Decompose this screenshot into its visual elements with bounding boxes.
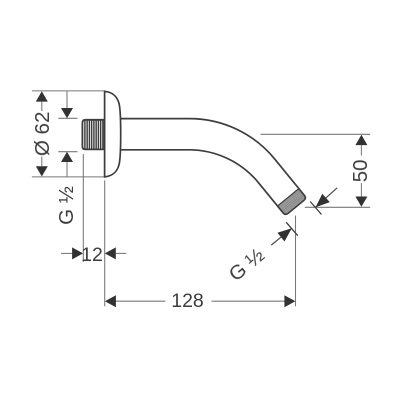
svg-text:Ø 62: Ø 62 xyxy=(31,112,54,156)
svg-text:50: 50 xyxy=(349,159,372,182)
svg-text:G ½: G ½ xyxy=(224,244,268,287)
arrow 50 down xyxy=(355,197,367,207)
shower arm pipe outline xyxy=(121,119,306,215)
arrow G 1/2 wall up xyxy=(61,152,73,162)
svg-text:G ½: G ½ xyxy=(55,186,78,225)
dimension line Ø62 lower segment xyxy=(41,157,43,167)
dim 128 line left segment xyxy=(116,300,166,302)
arrow 12 right xyxy=(105,247,116,259)
extension line flange face (12 and 128 dim) xyxy=(104,180,106,306)
dim 128 line right segment xyxy=(212,300,285,302)
dim 12 left tail xyxy=(61,252,72,254)
dim 50 lower segment xyxy=(360,183,362,197)
extension line bottom of flange (Ø62) xyxy=(32,176,105,178)
extension line tip level (50 dim bottom) xyxy=(305,206,370,208)
svg-text:128: 128 xyxy=(171,290,204,312)
leader G 1/2 outlet xyxy=(271,228,292,245)
arrow 50 up xyxy=(355,135,367,145)
wall flange xyxy=(105,91,121,177)
arrow Ø62 down xyxy=(36,166,48,176)
dimension line Ø62 upper segment xyxy=(41,102,43,111)
arrow 12 left xyxy=(72,247,83,259)
extension line thread top (G 1/2 wall) xyxy=(58,117,77,119)
dim 12 right tail xyxy=(116,252,127,254)
G 1/2 wall dim tail lower xyxy=(66,162,68,177)
wall thread body xyxy=(82,120,104,150)
arrow Ø62 up xyxy=(36,91,48,101)
extension line thread left (12 dim) xyxy=(82,154,84,262)
dim 50 upper segment xyxy=(360,145,362,155)
slash mark on 50 bottom extension xyxy=(310,202,321,215)
G 1/2 wall dim tail upper xyxy=(66,91,68,108)
arrow G 1/2 wall down xyxy=(61,108,73,118)
slash mark on tip extension (G 1/2 outlet) xyxy=(286,222,298,235)
leader arrow on 50 bottom extension xyxy=(315,188,337,208)
arrow 128 right xyxy=(284,295,295,307)
extension line below outlet tip (128 dim right) xyxy=(295,216,297,307)
extension line top of flange (Ø62) xyxy=(32,90,105,92)
extension line thread bottom (G 1/2 wall) xyxy=(58,151,77,153)
wall thread hatch xyxy=(85,120,103,148)
outlet thread start line xyxy=(278,189,299,206)
outlet thread hatch xyxy=(278,190,305,214)
svg-text:12: 12 xyxy=(81,244,103,266)
extension line arm axis (50 dim top) xyxy=(261,133,371,135)
arrow 128 left xyxy=(105,295,116,307)
